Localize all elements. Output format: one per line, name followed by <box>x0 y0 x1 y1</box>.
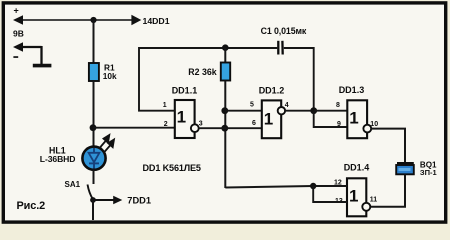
svg-text:2: 2 <box>164 121 168 128</box>
wire minus to ground <box>40 46 42 64</box>
resistor R1 <box>89 63 99 81</box>
svg-text:14DD1: 14DD1 <box>143 16 170 26</box>
node junction DD1.4 inputs <box>310 183 316 189</box>
svg-text:DD1.4: DD1.4 <box>344 162 370 172</box>
node junction R2 top <box>222 44 229 51</box>
wire DD1.1 out to junction <box>199 127 262 129</box>
svg-text:1: 1 <box>163 102 167 109</box>
node junction pin6 rail <box>221 125 228 132</box>
svg-text:10k: 10k <box>103 71 117 81</box>
svg-text:1: 1 <box>264 110 273 129</box>
wire BQ1 bottom to DD1.4 out <box>370 175 405 207</box>
svg-text:SA1: SA1 <box>65 180 81 189</box>
svg-text:9: 9 <box>337 121 341 128</box>
wire junction to pin13 <box>313 186 347 202</box>
svg-text:3: 3 <box>199 120 203 127</box>
pin label 7DD1 arrow <box>93 199 115 201</box>
pin label 14DD1 arrow <box>131 15 141 25</box>
node junction C1/out/DD1.3 <box>310 107 317 114</box>
svg-text:DD1.1: DD1.1 <box>172 85 198 95</box>
svg-text:4: 4 <box>285 102 289 109</box>
svg-text:R2 36k: R2 36k <box>188 67 216 77</box>
wire node down to pin9 <box>314 111 348 127</box>
wire R2 top <box>224 48 226 63</box>
wire feedback pin1 loop <box>139 48 277 111</box>
svg-text:L-36BHD: L-36BHD <box>40 154 76 164</box>
svg-text:ЗП-1: ЗП-1 <box>420 168 437 177</box>
LED HL1 <box>82 147 105 170</box>
svg-text:1: 1 <box>349 109 358 128</box>
wire R2 bottom column <box>224 81 226 189</box>
wire to DD1.1 pin 2 <box>93 127 175 129</box>
node junction pin5 rail <box>221 107 228 114</box>
ground <box>33 64 52 68</box>
wire LED to SA1 <box>93 170 95 185</box>
svg-text:C1 0,015мк: C1 0,015мк <box>261 26 307 36</box>
wire R1 to LED <box>93 81 95 147</box>
svg-text:7DD1: 7DD1 <box>127 195 151 205</box>
node junction top rail <box>90 17 96 23</box>
wire DD1.3 out to BQ1 <box>371 129 405 162</box>
LED emission arrows <box>100 135 114 153</box>
wire rail to R1 <box>93 20 95 64</box>
buzzer BQ1 <box>397 162 414 164</box>
svg-text:9В: 9В <box>13 28 24 38</box>
wire C1 right <box>284 48 314 111</box>
svg-text:DD1 K561ЛЕ5: DD1 K561ЛЕ5 <box>143 163 201 173</box>
node junction LED/R1 to DD1.1 pin2 <box>90 124 97 131</box>
svg-text:6: 6 <box>252 120 256 127</box>
power arrow - terminal <box>13 42 23 51</box>
power arrow + terminal <box>13 15 23 24</box>
svg-text:11: 11 <box>370 196 378 203</box>
wire top power rail <box>18 19 133 21</box>
wire node to DD1.3 pin8 <box>314 110 348 112</box>
svg-text:DD1.2: DD1.2 <box>259 85 285 95</box>
wire DD1.2 out to node <box>285 110 314 112</box>
svg-text:+: + <box>14 6 19 16</box>
wire SA1 to bottom <box>92 200 94 220</box>
svg-text:8: 8 <box>336 102 340 109</box>
svg-text:10: 10 <box>370 121 378 128</box>
resistor R2 <box>221 63 230 81</box>
svg-text:1: 1 <box>177 108 186 127</box>
svg-text:DD1.3: DD1.3 <box>339 85 365 95</box>
svg-text:5: 5 <box>250 102 254 109</box>
svg-text:1: 1 <box>349 187 358 206</box>
svg-text:Рис.2: Рис.2 <box>17 200 46 212</box>
wire junction to DD1.2 pin5 <box>225 110 262 112</box>
wire R2 column to DD1.4 inputs <box>225 186 347 188</box>
